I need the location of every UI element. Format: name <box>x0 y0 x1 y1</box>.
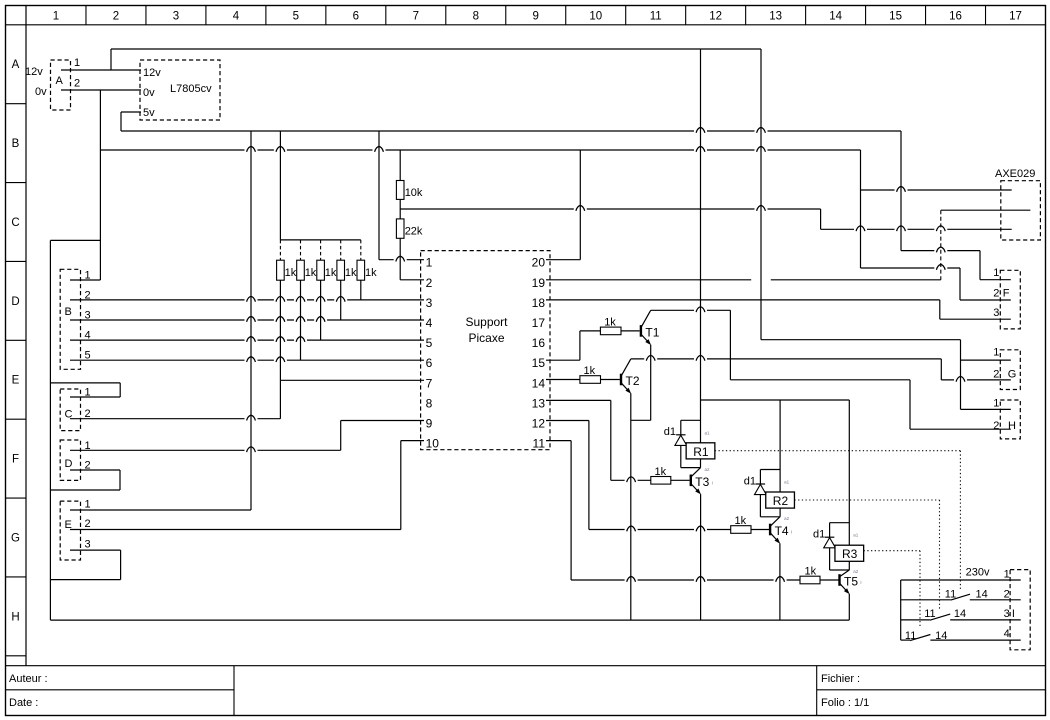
svg-text:9: 9 <box>426 417 433 431</box>
svg-text:14: 14 <box>954 608 966 620</box>
svg-text:F: F <box>1003 288 1010 300</box>
svg-text:a1: a1 <box>705 430 711 435</box>
svg-text:B: B <box>65 306 72 318</box>
svg-text:R1: R1 <box>693 445 709 459</box>
svg-text:1: 1 <box>426 256 433 270</box>
svg-text:2: 2 <box>1004 588 1010 600</box>
resistor R1k4 1k <box>337 260 345 280</box>
svg-text:L7805cv: L7805cv <box>170 83 212 95</box>
wire E3 to 0v <box>70 549 121 551</box>
svg-text:9: 9 <box>533 10 539 22</box>
resistor R1k2 1k <box>297 260 305 280</box>
wire D1 riser to pin9 <box>340 421 342 451</box>
wire T2 emitter down to 0v <box>630 393 632 620</box>
wire IC pin13 stub <box>546 399 611 401</box>
connector G <box>1000 350 1020 390</box>
svg-text:11: 11 <box>650 10 662 22</box>
wire G2 line <box>941 379 1011 381</box>
svg-text:a2: a2 <box>853 569 859 574</box>
diode d1 of R2 <box>755 484 767 495</box>
transistor T5 <box>840 570 859 594</box>
wire IC pin19 to AXE029 <box>546 279 941 281</box>
diode d1 of R3 cathode wire <box>829 523 831 538</box>
connector C <box>60 389 80 431</box>
svg-text:Support: Support <box>465 315 508 329</box>
svg-text:15: 15 <box>532 356 546 370</box>
wire divider middle <box>399 199 401 219</box>
svg-text:ı: ı <box>791 530 792 536</box>
resistor R1kT4 1k <box>731 526 751 534</box>
wire IC pin20 stub <box>546 259 580 261</box>
svg-text:10: 10 <box>426 437 440 451</box>
svg-text:2: 2 <box>993 288 999 300</box>
svg-text:I: I <box>1012 608 1015 620</box>
svg-text:a2: a2 <box>705 467 711 472</box>
wire R2 coil to T4 collector <box>779 508 781 517</box>
diode d1 of R2 cathode wire <box>759 470 761 485</box>
link R1 to contact K1 dotted <box>715 450 961 452</box>
wire E1 stub <box>70 509 251 511</box>
wire 1k to T4 base <box>751 529 770 531</box>
wire resistor R1k5 top stub <box>360 240 362 260</box>
svg-text:19: 19 <box>532 276 546 290</box>
svg-text:1k: 1k <box>604 317 616 329</box>
diode d1 of R1 anode wire <box>680 445 682 467</box>
wire 0v rail from A pin2 <box>99 90 101 280</box>
svg-text:14: 14 <box>976 588 988 600</box>
svg-text:1k: 1k <box>325 267 337 279</box>
wire IC pin7 line <box>280 379 424 381</box>
svg-text:11: 11 <box>924 608 935 620</box>
wire F2 stub <box>960 299 1011 301</box>
wire serial divider node line <box>400 208 820 210</box>
title block divider x=817 <box>816 666 818 716</box>
wire 1k to T3 base <box>671 479 690 481</box>
wire IC pin1 stub <box>379 259 424 261</box>
svg-text:G: G <box>1008 368 1017 380</box>
wire C2 riser to pin7 <box>279 380 281 418</box>
svg-text:Auteur :: Auteur : <box>9 673 48 685</box>
wire B pin3 to IC pin4 <box>70 319 424 321</box>
svg-text:10: 10 <box>589 10 602 22</box>
wire 12v to relay R2 diode branch <box>760 469 780 471</box>
svg-text:1k: 1k <box>345 267 357 279</box>
wire IC pin14 stub <box>546 379 580 381</box>
resistor R1k5 1k <box>357 260 365 280</box>
relay coil R2 <box>766 492 795 508</box>
IC U2 Support Picaxe <box>421 251 550 450</box>
connector E <box>60 501 80 560</box>
resistor R1kT5 1k <box>800 576 820 584</box>
wire R3 riser <box>848 400 850 545</box>
wire C2 line <box>70 418 280 420</box>
svg-text:18: 18 <box>532 296 546 310</box>
svg-text:3: 3 <box>1004 608 1010 620</box>
svg-text:14: 14 <box>935 630 947 642</box>
transistor T1 <box>641 310 660 345</box>
svg-text:R3: R3 <box>842 547 858 561</box>
svg-text:6: 6 <box>353 10 359 22</box>
wire D2 to 0v <box>70 469 120 471</box>
svg-text:12: 12 <box>532 417 546 431</box>
diode d1 of R2 anode wire <box>759 495 761 517</box>
title block mid line left <box>6 689 235 691</box>
connector A <box>51 60 71 110</box>
row dividers <box>6 103 27 105</box>
svg-text:1k: 1k <box>285 267 297 279</box>
svg-text:1: 1 <box>993 267 999 279</box>
wire 12v vertical feed to R1 <box>700 49 702 443</box>
wire 12v top bus <box>111 48 761 50</box>
wire 1k to T5 base <box>820 579 839 581</box>
svg-text:D: D <box>11 296 19 308</box>
wire IC pin9 stub <box>341 420 424 422</box>
svg-text:d1: d1 <box>744 475 756 487</box>
transistor T3 <box>691 468 710 495</box>
wire G H riser <box>960 340 962 410</box>
resistor R1kT1 1k <box>600 327 621 335</box>
svg-text:10k: 10k <box>405 187 423 199</box>
svg-text:15: 15 <box>889 10 902 22</box>
svg-text:1k: 1k <box>305 267 317 279</box>
resistor R1kT3 1k <box>651 477 671 485</box>
svg-text:8: 8 <box>426 396 433 410</box>
svg-text:2: 2 <box>993 368 999 380</box>
transistor T2 <box>621 359 640 394</box>
svg-text:AXE029: AXE029 <box>995 168 1035 180</box>
svg-text:ı: ı <box>712 481 713 487</box>
svg-text:0v: 0v <box>35 86 47 98</box>
wire resistor R1k3 top stub <box>320 240 322 260</box>
wire T1 route down to H2 <box>909 380 911 429</box>
svg-text:d1: d1 <box>664 426 676 438</box>
svg-text:T1: T1 <box>645 325 659 339</box>
svg-text:13: 13 <box>769 10 782 22</box>
wire resistor R1k1 bottom <box>279 280 281 380</box>
wire 0v bus <box>100 149 860 151</box>
svg-text:E: E <box>12 375 20 387</box>
link R2 to contact K2 dotted <box>794 499 939 501</box>
svg-text:12: 12 <box>709 10 722 22</box>
wire T1 collector route down <box>729 310 731 380</box>
svg-text:1: 1 <box>53 10 59 22</box>
wire 1k to T1 base <box>621 330 640 332</box>
svg-text:d1: d1 <box>813 529 825 541</box>
svg-text:2: 2 <box>426 276 433 290</box>
svg-text:1k: 1k <box>365 267 377 279</box>
svg-text:3: 3 <box>173 10 179 22</box>
wire B pin2 to IC pin3 <box>70 299 424 301</box>
wire D1 line <box>70 449 341 451</box>
svg-text:R2: R2 <box>773 494 789 508</box>
wire serial to AXE029 pin3 <box>821 228 1012 230</box>
svg-text:17: 17 <box>532 316 546 330</box>
svg-text:D: D <box>65 458 73 470</box>
svg-text:A: A <box>12 59 20 71</box>
wire serial step down <box>820 209 822 229</box>
connector I <box>1010 570 1030 650</box>
svg-text:3: 3 <box>993 307 999 319</box>
header left column line <box>25 6 27 666</box>
svg-text:1: 1 <box>993 397 999 409</box>
svg-text:a1: a1 <box>853 533 859 538</box>
wire 5v riser to IC pin1 <box>378 131 380 260</box>
wire 22k bottom to IC pin2 <box>399 238 401 279</box>
wire 0v branch down <box>860 150 862 268</box>
wire C1 to 0v <box>70 396 120 398</box>
resistor R1k1 1k <box>277 260 285 280</box>
wire 0v bottom bus <box>50 619 849 621</box>
svg-text:H: H <box>1008 420 1016 432</box>
svg-text:1: 1 <box>74 57 80 69</box>
svg-text:T4: T4 <box>775 524 789 538</box>
connector D <box>60 440 80 480</box>
wire pin12 to 1k T4 <box>589 529 731 531</box>
svg-text:2: 2 <box>85 518 91 530</box>
connector H <box>1000 400 1020 439</box>
wire resistor R1k4 bottom <box>340 280 342 320</box>
svg-text:G: G <box>11 532 20 544</box>
wire IC pin12 stub <box>546 420 589 422</box>
header column dividers <box>85 6 87 25</box>
link R3 to contact K3 dotted <box>864 550 920 552</box>
wire 5v corner <box>120 112 122 131</box>
wire AXE029 pin2 stub <box>941 209 1031 211</box>
wire T2 collector line <box>631 358 942 360</box>
wire B pin5 to IC pin6 <box>70 359 424 361</box>
wire resistor R1k2 top stub <box>300 240 302 260</box>
wire IC pin15 stub <box>546 359 580 361</box>
wire R1 coil to T3 collector <box>700 459 702 468</box>
wire T3 emitter down to 0v <box>700 494 702 620</box>
svg-text:11: 11 <box>905 630 916 642</box>
svg-text:4: 4 <box>426 316 433 330</box>
wire B pin4 to IC pin5 <box>70 339 424 341</box>
svg-text:14: 14 <box>829 10 842 22</box>
connector F <box>1000 270 1020 329</box>
svg-text:B: B <box>12 138 20 150</box>
svg-text:13: 13 <box>532 396 546 410</box>
wire pin15 riser <box>579 331 581 360</box>
svg-text:12v: 12v <box>143 67 161 79</box>
wire IC pin18 to F3 <box>546 299 940 301</box>
contact K1 of R1 <box>901 599 951 601</box>
wire pin15 to 1k T1 <box>580 330 601 332</box>
regulator U1 L7805cv <box>140 60 220 120</box>
svg-text:20: 20 <box>532 256 546 270</box>
wire resistor R1k4 top stub <box>340 240 342 260</box>
wire F1 step down <box>979 251 981 280</box>
wire R3 coil to T5 collector <box>848 561 850 570</box>
wire resistor R1k3 bottom <box>320 280 322 340</box>
svg-text:2: 2 <box>74 78 80 90</box>
svg-text:12v: 12v <box>25 66 43 78</box>
wire T1 emitter jog to T2 emitter <box>631 419 651 421</box>
svg-text:4: 4 <box>1004 628 1010 640</box>
resistor R10k 10k <box>396 181 404 200</box>
wire 5v bus <box>121 130 901 132</box>
svg-text:14: 14 <box>532 376 546 390</box>
svg-text:4: 4 <box>233 10 240 22</box>
wire 5v riser to E1 <box>250 131 252 510</box>
wire 0v to AXE029 pin1 <box>861 189 1012 191</box>
wire 5v to F1 line <box>901 250 980 252</box>
svg-text:16: 16 <box>949 10 962 22</box>
svg-text:H: H <box>11 611 19 623</box>
svg-text:1k: 1k <box>805 566 817 578</box>
wire F1 stub <box>980 279 1011 281</box>
svg-text:a1: a1 <box>784 480 790 485</box>
svg-text:11: 11 <box>533 437 546 451</box>
wire G1 stub <box>961 359 1011 361</box>
relay coil R1 <box>686 443 715 459</box>
svg-text:22k: 22k <box>405 226 423 238</box>
wire IC pin10 stub <box>401 440 424 442</box>
wire T4 emitter down to 0v <box>779 543 781 620</box>
title block divider x=234 <box>233 666 235 716</box>
svg-text:ı: ı <box>860 580 861 586</box>
svg-text:8: 8 <box>473 10 479 22</box>
wire T1 emitter down <box>650 345 652 421</box>
svg-text:T3: T3 <box>695 475 709 489</box>
svg-text:1: 1 <box>1004 568 1010 580</box>
diode d1 of R3 <box>824 537 836 548</box>
svg-text:T2: T2 <box>626 374 640 388</box>
svg-text:Date :: Date : <box>9 697 38 709</box>
wire resistor R1k1 top stub <box>279 240 281 260</box>
transistor T4 <box>770 517 789 544</box>
connector AXE029 <box>1001 181 1041 240</box>
svg-text:2: 2 <box>113 10 119 22</box>
wire 12v to relay R1 diode branch <box>681 419 701 421</box>
title block mid line right <box>817 689 1046 691</box>
diode d1 of R3 anode wire <box>829 548 831 570</box>
wire R2 riser <box>779 400 781 492</box>
wire T1 collector line <box>651 309 731 311</box>
wire 12v to relay R3 diode branch <box>830 522 850 524</box>
svg-text:1: 1 <box>85 499 91 511</box>
wire 5v branch down <box>900 131 902 251</box>
svg-text:5: 5 <box>293 10 299 22</box>
svg-text:0v: 0v <box>143 87 155 99</box>
svg-text:F: F <box>12 454 19 466</box>
svg-text:T5: T5 <box>844 575 858 589</box>
title block top line <box>6 665 1046 667</box>
svg-text:Picaxe: Picaxe <box>468 331 504 345</box>
wire A pin1 to regulator 12v <box>61 69 141 71</box>
wire pin13 to 1k T3 <box>611 479 651 481</box>
svg-text:5: 5 <box>426 336 433 350</box>
svg-text:2: 2 <box>993 420 999 432</box>
wire resistor R1k2 bottom <box>300 280 302 360</box>
svg-text:Folio : 1/1: Folio : 1/1 <box>821 697 869 709</box>
wire contact common vertical <box>900 580 902 640</box>
svg-text:7: 7 <box>413 10 419 22</box>
wire E2 line <box>70 529 401 531</box>
wire A pin2 to regulator 0v <box>61 89 141 91</box>
wire B pin1 to 0v rail <box>70 279 100 281</box>
svg-text:1: 1 <box>993 346 999 358</box>
svg-text:a2: a2 <box>784 516 790 521</box>
contact K2 of R2 <box>901 619 930 621</box>
wire 10k top stub <box>399 150 401 181</box>
wire T5 emitter down to 0v <box>848 594 850 620</box>
wire 12v feed line to R2 R3 <box>701 399 850 401</box>
diode d1 of R1 <box>675 435 687 446</box>
wire I1 line 230v <box>901 579 1021 581</box>
svg-text:3: 3 <box>85 539 91 551</box>
connector B <box>60 269 80 369</box>
header band line <box>6 24 1046 26</box>
diode d1 of R1 cathode wire <box>680 420 682 435</box>
wire 5v output stub <box>121 111 141 113</box>
svg-text:1k: 1k <box>584 365 596 377</box>
svg-text:3: 3 <box>426 296 433 310</box>
wire 0v left rail <box>49 240 51 620</box>
svg-text:1k: 1k <box>655 466 667 478</box>
wire 12v branch down at x761 <box>760 49 762 340</box>
svg-text:11: 11 <box>945 588 956 600</box>
wire 1k to T2 base <box>601 379 620 381</box>
contact K3 of R3 <box>901 639 910 641</box>
wire 0v branch to left rail <box>50 239 100 241</box>
wire H1 stub <box>961 408 1011 410</box>
relay coil R3 <box>835 545 864 561</box>
wire 12v to G H line <box>761 339 961 341</box>
svg-text:7: 7 <box>426 376 433 390</box>
wire pull resistor top bus <box>280 239 360 241</box>
wire 0v to F2 line <box>861 267 961 269</box>
svg-text:16: 16 <box>532 336 546 350</box>
wire H2 line <box>910 428 1011 430</box>
wire 5v riser to pull resistors <box>279 131 281 240</box>
resistor R22k 22k <box>396 219 404 238</box>
svg-text:6: 6 <box>426 356 433 370</box>
svg-text:A: A <box>56 75 64 87</box>
wire 12v riser to top bus <box>110 49 112 70</box>
resistor R1k3 1k <box>317 260 325 280</box>
wire F2 step down <box>959 268 961 300</box>
svg-text:5v: 5v <box>143 107 155 119</box>
wire IC pin11 stub <box>546 440 571 442</box>
wire pin11 to 1k T5 <box>571 579 800 581</box>
svg-text:230v: 230v <box>966 567 990 579</box>
wire pin10 riser to E2 <box>400 441 402 530</box>
svg-text:17: 17 <box>1009 10 1022 22</box>
wire serial-out dashed riser <box>940 210 942 280</box>
wire resistor R1k5 bottom <box>360 280 362 300</box>
wire T1 collector route right <box>730 379 910 381</box>
svg-text:C: C <box>11 217 19 229</box>
resistor R1kT2 1k <box>580 376 601 384</box>
wire 0v riser to IC pin20 <box>579 150 581 260</box>
svg-text:1k: 1k <box>735 515 747 527</box>
svg-text:Fichier :: Fichier : <box>821 673 860 685</box>
wire T2 route down to G2 <box>940 359 942 380</box>
